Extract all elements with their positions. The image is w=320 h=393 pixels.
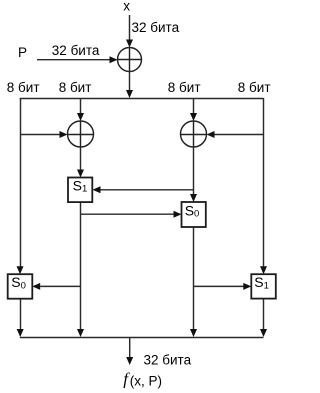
arrowhead final output (126, 357, 133, 365)
arrowhead into left XOR top (77, 113, 84, 121)
arrowhead into S1 top (77, 170, 84, 178)
wire x input vertical (129, 15, 131, 41)
svg-text:8 бит: 8 бит (59, 80, 92, 95)
arrowhead into right XOR top (190, 113, 197, 121)
svg-text:8 бит: 8 бит (168, 80, 201, 95)
svg-text:8 бит: 8 бит (238, 80, 271, 95)
arrowhead into S0 middle left side (174, 211, 182, 218)
arrowhead into S1 right side (93, 186, 101, 193)
arrowhead left col onto bottom bus (17, 329, 24, 337)
wire left column x0 (20, 98, 22, 268)
wire right XOR output to S0 middle (193, 147, 195, 196)
arrowhead into left XOR left (60, 131, 68, 138)
wire XOR top output to bus (129, 72, 131, 92)
arrowhead into S0 left right side (32, 283, 40, 290)
svg-text:32 бита: 32 бита (132, 20, 180, 35)
arrowhead S1 col onto bottom bus (77, 329, 84, 337)
wire S1 bottom output (263, 299, 265, 330)
wire right column x3 (263, 98, 265, 268)
svg-text:x: x (123, 0, 130, 14)
wire S1 output column (80, 202, 82, 330)
wire branch S1 column to S0 left (40, 285, 80, 287)
S-box S1 bottom right (251, 274, 275, 298)
wire branch into right XOR (193, 98, 195, 114)
arrowhead into S0 middle top (190, 194, 197, 202)
wire left XOR horizontal input from left column (20, 134, 61, 136)
XOR op right circle (181, 121, 207, 147)
wire branch S1 output to S0 middle (81, 213, 175, 215)
svg-text:32 бита: 32 бита (52, 43, 100, 58)
S-box S0 bottom left (8, 274, 33, 299)
wire top bus horizontal (20, 98, 264, 100)
arrowhead P into top XOR (110, 56, 118, 63)
arrowhead x into top XOR (126, 40, 133, 48)
arrowhead into S1 bottom left side (243, 283, 251, 290)
svg-text:8 бит: 8 бит (7, 80, 40, 95)
wire P input horizontal (37, 59, 110, 61)
svg-text:(x, P): (x, P) (130, 374, 162, 389)
wire branch into left XOR (80, 98, 82, 114)
wire final output arrow (129, 338, 131, 359)
wire left XOR output to S1 (80, 147, 82, 171)
svg-text:32 бита: 32 бита (144, 353, 192, 368)
wire bottom bus horizontal (20, 337, 264, 339)
wire right XOR horizontal input from right column (215, 134, 264, 136)
arrowhead into right XOR right (207, 131, 215, 138)
arrowhead S0 col onto bottom bus (190, 329, 197, 337)
XOR op top circle (118, 48, 142, 72)
arrowhead into S1 bottom top (260, 266, 267, 274)
S-box S0 middle right (182, 202, 206, 227)
S-box S1 top middle (68, 178, 92, 203)
arrowhead S1 bottom onto bottom bus (260, 329, 267, 337)
wire S0 middle output column (193, 227, 195, 330)
svg-text:P: P (18, 45, 27, 60)
wire branch S0 middle column to S1 bottom (194, 285, 245, 287)
XOR op left circle (68, 121, 94, 147)
wire into S1 right side from right XOR column (101, 189, 194, 191)
arrowhead top XOR out onto bus (126, 90, 133, 98)
arrowhead into S0 left top (17, 266, 24, 274)
wire S0 left output (20, 299, 22, 330)
